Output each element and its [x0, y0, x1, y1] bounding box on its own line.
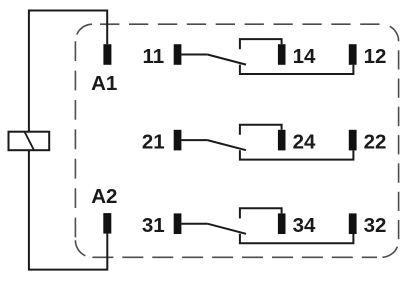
- border right edge: [398, 41, 400, 240]
- coil K (rectangle): [9, 132, 50, 151]
- NC path to 32: [240, 234, 354, 243]
- terminal 22: [349, 130, 357, 151]
- contact blade: [207, 55, 246, 65]
- contact blade: [207, 224, 246, 234]
- contact row 1 (11/14/12): [142, 39, 386, 74]
- coil diagonal: [25, 132, 35, 151]
- svg-text:22: 22: [364, 131, 387, 154]
- svg-text:24: 24: [293, 131, 316, 154]
- wire common 21: [181, 139, 207, 141]
- dashed relay outline box: [75, 24, 398, 257]
- terminal 11: [174, 44, 182, 65]
- wire common 11: [181, 54, 207, 56]
- NO bracket to 14: [240, 39, 282, 49]
- svg-text:A1: A1: [91, 72, 117, 95]
- border bottom-right arc: [382, 240, 399, 257]
- svg-text:21: 21: [142, 131, 165, 154]
- border bottom-left arc: [75, 240, 92, 257]
- border left edge: [74, 41, 76, 239]
- svg-text:31: 31: [142, 214, 165, 237]
- terminal 24: [278, 130, 286, 151]
- svg-text:32: 32: [364, 214, 387, 237]
- svg-text:A2: A2: [91, 185, 117, 208]
- border top-right arc: [382, 24, 399, 41]
- contact row 2 (21/24/22): [142, 125, 387, 160]
- NO bracket to 24: [240, 125, 282, 135]
- terminal 34: [278, 213, 286, 234]
- wire: bottom feed A2: [29, 150, 107, 269]
- wire common 31: [181, 223, 207, 225]
- terminal 12: [349, 44, 357, 65]
- terminal A2: [103, 213, 111, 234]
- border top edge: [92, 23, 381, 25]
- NC path to 12: [240, 65, 354, 74]
- wire: top feed A1: [29, 11, 107, 132]
- NO bracket to 34: [240, 208, 282, 218]
- svg-text:11: 11: [142, 45, 164, 68]
- terminal 21: [174, 130, 182, 151]
- terminal A1: [103, 44, 111, 65]
- contact row 3 (31/34/32): [142, 208, 387, 243]
- svg-text:12: 12: [364, 45, 387, 68]
- border bottom edge: [92, 256, 377, 258]
- contact blade: [207, 140, 246, 150]
- terminal 32: [349, 213, 357, 234]
- svg-text:14: 14: [293, 45, 316, 68]
- NC path to 22: [240, 150, 354, 159]
- terminal 14: [278, 44, 286, 65]
- terminal 31: [174, 213, 182, 234]
- svg-text:34: 34: [293, 214, 316, 237]
- border top-left arc: [75, 24, 92, 41]
